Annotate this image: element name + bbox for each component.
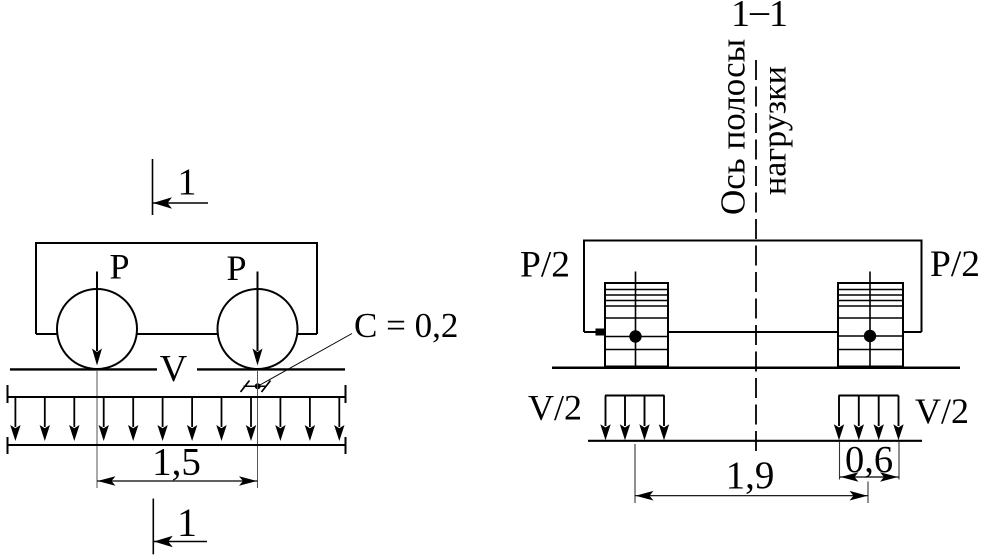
svg-text:Р/2: Р/2 <box>930 244 980 285</box>
svg-text:V/2: V/2 <box>528 388 582 428</box>
svg-text:P: P <box>226 248 246 288</box>
svg-text:нагрузки: нагрузки <box>757 66 794 195</box>
svg-text:1,9: 1,9 <box>726 454 775 497</box>
svg-text:P: P <box>109 247 129 287</box>
svg-text:1–1: 1–1 <box>731 0 788 35</box>
svg-text:Р/2: Р/2 <box>520 245 570 286</box>
svg-text:0,6: 0,6 <box>845 439 893 481</box>
svg-text:1: 1 <box>177 500 197 545</box>
svg-text:Ось полосы: Ось полосы <box>714 39 753 215</box>
svg-text:V: V <box>160 348 188 390</box>
svg-text:1: 1 <box>178 162 197 204</box>
svg-text:V/2: V/2 <box>915 391 969 431</box>
svg-text:1,5: 1,5 <box>152 441 201 484</box>
svg-text:С = 0,2: С = 0,2 <box>354 306 458 345</box>
